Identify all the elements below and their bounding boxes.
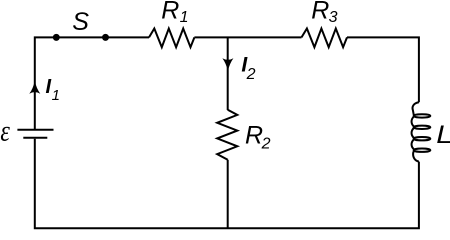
wire top-middle (R1 to R3)	[194, 36, 301, 38]
inductor L link 2-3	[412, 128, 414, 138]
current arrow I1 (up, on left wire)	[29, 81, 40, 94]
inductor L turn 3	[414, 137, 431, 140]
switch S dot right	[102, 34, 109, 41]
svg-text:L: L	[436, 120, 450, 148]
svg-text:S: S	[72, 8, 89, 36]
inductor L link 1-2	[412, 117, 414, 127]
inductor L entry hook	[413, 102, 419, 115]
svg-text:3: 3	[329, 9, 338, 26]
resistor R3	[302, 29, 348, 48]
wire middle upper (junction to R2)	[227, 37, 229, 110]
inductor L exit hook	[413, 151, 419, 162]
battery EMF source short plate	[23, 137, 47, 139]
inductor L turn 1	[414, 114, 431, 117]
svg-text:2: 2	[246, 66, 256, 83]
current arrow I2 (down, on middle wire)	[222, 58, 233, 71]
wire left upper + top-left (battery to corner to R1)	[35, 37, 149, 129]
svg-text:R: R	[245, 122, 263, 150]
svg-text:1: 1	[52, 87, 60, 104]
svg-text:ε: ε	[0, 114, 10, 147]
wire top-right + right upper (R3 to corner to inductor)	[347, 37, 419, 102]
svg-text:R: R	[311, 0, 329, 25]
resistor R1	[149, 29, 194, 48]
wire left lower + bottom + right lower (battery to corners to inductor)	[35, 139, 419, 229]
svg-text:1: 1	[180, 9, 189, 26]
label epsilon (EMF)	[0, 114, 10, 147]
inductor L link 3-4	[412, 139, 414, 149]
inductor L turn 4	[414, 149, 431, 152]
svg-text:R: R	[161, 0, 179, 25]
label L	[436, 120, 450, 148]
svg-text:2: 2	[261, 135, 271, 152]
switch S dot left	[53, 34, 60, 41]
inductor L turn 2	[414, 126, 431, 129]
resistor R2	[217, 110, 237, 160]
battery EMF source long plate	[17, 129, 53, 131]
svg-text:I: I	[46, 76, 52, 98]
wire middle lower (R2 to bottom)	[227, 160, 229, 229]
